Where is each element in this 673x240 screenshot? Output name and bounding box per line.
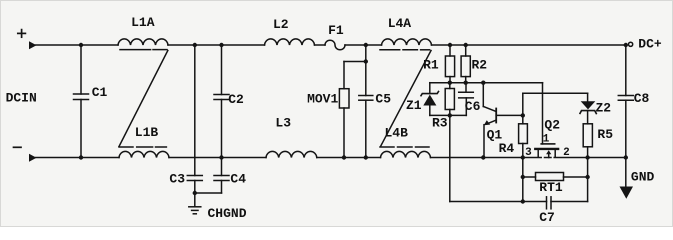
L4B core dashed line <box>380 146 394 148</box>
junction C2 top <box>219 43 223 47</box>
capacitor C2 <box>221 45 223 95</box>
svg-text:2: 2 <box>563 147 570 159</box>
transistor Q1 <box>482 83 484 107</box>
capacitor C5 <box>359 95 373 97</box>
wire bottom rail: arrow to L1B <box>36 157 120 159</box>
wire left branch from node B down <box>449 115 451 201</box>
wire MOV1 branch <box>344 61 366 63</box>
junction C7 left <box>521 199 525 203</box>
junction C1 bottom <box>79 155 83 159</box>
zener Z1 <box>429 83 431 94</box>
svg-text:C2: C2 <box>228 92 244 107</box>
svg-text:L4B: L4B <box>384 126 408 141</box>
capacitor C1 <box>80 45 82 94</box>
wire node A horizontal <box>430 82 543 84</box>
wire Q1 base lead <box>496 114 523 116</box>
junction R3 node B <box>448 113 452 117</box>
junction C2 bottom <box>219 155 223 159</box>
L1B core dashed line <box>119 146 133 148</box>
svg-text:DC+: DC+ <box>638 37 662 52</box>
svg-text:C4: C4 <box>230 172 246 187</box>
ground GND <box>620 187 634 199</box>
svg-text:C6: C6 <box>465 99 481 114</box>
capacitor C7 <box>546 197 548 209</box>
inductor L4B <box>381 151 431 157</box>
wire top rail: F1 to L4A <box>345 44 382 46</box>
svg-text:R1: R1 <box>423 58 439 73</box>
junction C5 top <box>364 43 368 47</box>
L1A core dashed line <box>120 49 151 51</box>
svg-text:Z1: Z1 <box>406 98 422 113</box>
svg-text:R5: R5 <box>597 127 613 142</box>
resistor R3 <box>449 83 451 89</box>
junction RT1 right <box>585 175 589 179</box>
wire bottom rail: Q2 to GND node <box>554 157 626 159</box>
svg-text:L1A: L1A <box>131 15 155 30</box>
junction R5 rail <box>585 155 589 159</box>
svg-text:L3: L3 <box>275 115 291 130</box>
L4A core dashed line <box>380 49 400 51</box>
wire top rail: L4A to DC+ <box>432 44 626 46</box>
junction R3 node A <box>448 81 452 85</box>
inductor L2 <box>265 39 315 45</box>
resistor R1 <box>449 45 451 56</box>
junction C1 top <box>79 43 83 47</box>
junction R2 top <box>464 43 468 47</box>
wire RT1 column <box>522 158 524 202</box>
svg-text:DCIN: DCIN <box>6 91 37 106</box>
svg-text:CHGND: CHGND <box>207 206 246 221</box>
L4 coupling diagonal <box>381 51 432 147</box>
varistor MOV1 <box>339 89 349 108</box>
label - polarity mark <box>14 146 22 148</box>
svg-text:3: 3 <box>525 147 532 159</box>
label + polarity mark <box>18 30 26 38</box>
resistor R4 <box>522 115 524 123</box>
wire C5 column <box>365 45 367 96</box>
wire bottom rail: L3 to L4B <box>317 157 381 159</box>
svg-text:C7: C7 <box>539 210 555 225</box>
inductor L1B <box>119 151 169 157</box>
svg-text:R3: R3 <box>432 116 448 131</box>
svg-text:C8: C8 <box>634 91 650 106</box>
node DC+ terminal circle <box>629 42 633 46</box>
resistor R5 <box>583 124 592 147</box>
junction Q1 collector node A <box>481 81 485 85</box>
capacitor C6 <box>465 83 467 93</box>
wire top rail: arrow to L1A <box>36 44 119 46</box>
junction Q1 emitter rail <box>481 155 485 159</box>
junction R1 top <box>448 43 452 47</box>
junction C5 bottom <box>364 155 368 159</box>
wire bottom rail: L1B to L3 <box>169 157 266 159</box>
wire C3/C4 bottom link <box>195 192 222 194</box>
junction GND rail <box>624 155 628 159</box>
svg-text:F1: F1 <box>328 23 344 38</box>
svg-text:L4A: L4A <box>388 16 412 31</box>
svg-text:L2: L2 <box>273 17 289 32</box>
svg-text:C1: C1 <box>92 85 108 100</box>
svg-text:MOV1: MOV1 <box>307 92 338 107</box>
junction C6 node A <box>464 81 468 85</box>
svg-text:R2: R2 <box>471 58 487 73</box>
wire GND stem <box>625 158 627 187</box>
node DCIN+ terminal arrow <box>29 41 37 49</box>
svg-text:R4: R4 <box>499 141 515 156</box>
wire bottom rail: Q2 middle segment <box>545 157 552 159</box>
wire R5 to RT1/C7 right column <box>587 158 589 202</box>
wire bottom link to C7 <box>450 201 547 203</box>
wire top rail: L1A to L2 <box>168 44 265 46</box>
fuse F1 <box>325 40 345 50</box>
junction Q1 base node <box>521 113 525 117</box>
L1 coupling diagonal <box>119 51 168 147</box>
inductor L3 <box>266 151 317 157</box>
junction C3 top <box>193 43 197 47</box>
capacitor C3 wire from top rail <box>194 45 196 176</box>
thermistor RT1 <box>523 176 536 178</box>
junction MOV1 bottom <box>342 155 346 159</box>
svg-text:Q2: Q2 <box>544 118 560 133</box>
svg-text:GND: GND <box>631 169 655 184</box>
svg-text:Z2: Z2 <box>595 101 611 116</box>
wire node B riser and node C horizontal <box>522 93 524 115</box>
resistor R2 <box>465 45 467 56</box>
svg-text:RT1: RT1 <box>539 180 563 195</box>
junction DC+ <box>624 43 628 47</box>
mosfet Q2 <box>541 143 555 145</box>
inductor L4A <box>382 39 432 45</box>
wire node B left (Z1/R3/C6) <box>430 114 467 116</box>
junction CHGND <box>193 191 197 195</box>
capacitor C8 <box>625 45 627 96</box>
wire top rail: L2 to F1 <box>315 44 326 46</box>
inductor L1A <box>118 39 168 45</box>
svg-text:L1B: L1B <box>135 125 159 140</box>
chassis ground CHGND <box>194 193 196 207</box>
junction R4 rail <box>521 155 525 159</box>
wire Q2 drain riser <box>542 83 544 144</box>
junction MOV1 branch <box>364 59 368 63</box>
capacitor C4 <box>221 158 223 176</box>
wire bottom rail: L4B to Q2 <box>431 157 542 159</box>
junction RT1 left <box>521 175 525 179</box>
svg-text:C5: C5 <box>375 91 391 106</box>
capacitor C3 <box>187 175 202 177</box>
node DCIN- terminal arrow <box>29 154 37 162</box>
zener Z2 <box>587 93 589 101</box>
svg-text:C3: C3 <box>169 172 185 187</box>
svg-text:1: 1 <box>543 134 550 146</box>
